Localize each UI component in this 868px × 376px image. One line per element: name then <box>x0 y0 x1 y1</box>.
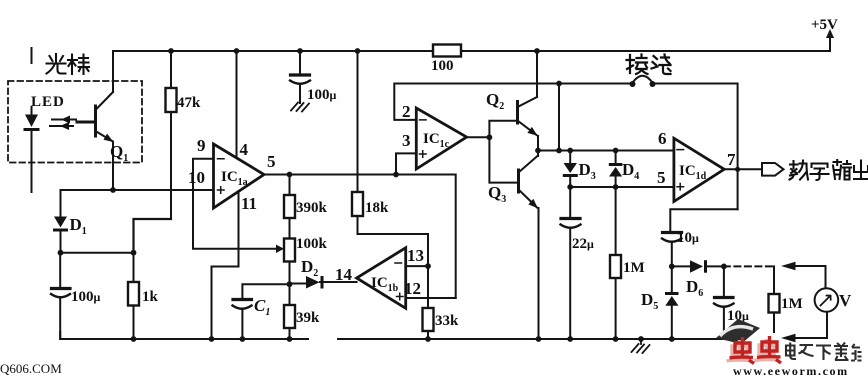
meter V circle <box>815 288 839 312</box>
dashed sensor box <box>8 81 142 163</box>
svg-text:33k: 33k <box>435 313 459 329</box>
watermark swoosh <box>716 319 760 344</box>
resistor 1M left <box>615 187 617 339</box>
wire push-pull output row <box>538 150 674 152</box>
resistor 100k pot <box>284 239 295 262</box>
wire top +5V rail <box>113 50 830 52</box>
svg-text:1k: 1k <box>142 289 159 305</box>
wire IC1a output bus <box>264 175 456 299</box>
svg-text:Q1: Q1 <box>110 142 128 164</box>
wire pin12 <box>406 297 456 299</box>
diode D1 <box>60 190 62 217</box>
resistor 390k <box>289 175 291 239</box>
svg-text:D4: D4 <box>622 160 639 182</box>
wire D2 row <box>290 282 357 284</box>
wire feedback 10u branch <box>670 209 737 231</box>
wire IC1c out to bases <box>467 121 518 183</box>
wire 47k jog to 1k node <box>134 219 172 253</box>
wire LED cathode <box>31 131 33 192</box>
wire feedback vertical <box>558 84 560 151</box>
diode D3 <box>569 151 571 164</box>
wire pin9 feedback to 100k wiper <box>193 159 276 249</box>
svg-text:Q3: Q3 <box>488 183 506 205</box>
diode D6 <box>690 260 707 273</box>
wire D3 D4 lower row to pin5 <box>570 186 674 188</box>
svg-text:Q606.COM: Q606.COM <box>0 361 62 376</box>
svg-text:3: 3 <box>402 131 411 150</box>
svg-text:5: 5 <box>657 168 666 187</box>
svg-text:2: 2 <box>402 102 411 121</box>
svg-text:Q2: Q2 <box>486 90 504 112</box>
svg-text:390k: 390k <box>296 200 328 216</box>
svg-text:1M: 1M <box>623 260 645 276</box>
capacitor 10u first <box>663 231 682 234</box>
wire pin7 output <box>724 168 762 170</box>
svg-text:7: 7 <box>727 150 736 169</box>
op-amp U-IC1b <box>357 248 406 308</box>
node D1-1k row <box>61 252 134 254</box>
wire C1 branch <box>242 284 289 298</box>
svg-text:D1: D1 <box>70 215 87 237</box>
wire meter bottom lead with arrow <box>795 312 827 338</box>
svg-text:C1: C1 <box>254 296 270 318</box>
wire dashed hookup to meter top <box>724 265 773 267</box>
label bang (rod) <box>68 55 89 75</box>
+5V arrow <box>829 36 831 51</box>
ground symbol bottom <box>632 339 650 353</box>
op-amp U-IC1d <box>674 138 724 201</box>
watermark chong shadow <box>727 339 778 361</box>
svg-text:5: 5 <box>267 152 276 171</box>
svg-text:10: 10 <box>188 168 205 187</box>
watermark chong bug 2 <box>757 336 781 363</box>
capacitor 100u left <box>59 253 61 287</box>
wire LED anode stub <box>31 48 33 115</box>
watermark dianzi xiazaizhan text <box>786 343 862 361</box>
transistor Q3 <box>517 170 520 192</box>
svg-text:22μ: 22μ <box>572 236 594 252</box>
node rail junction dots <box>168 29 834 54</box>
svg-text:6: 6 <box>658 129 667 148</box>
svg-text:LED: LED <box>31 94 65 110</box>
svg-text:www.eeworm.com: www.eeworm.com <box>733 364 849 376</box>
wire pin4 IC1a <box>236 51 238 156</box>
op-amp U-IC1c <box>416 108 466 169</box>
resistor 18k column from rail <box>357 51 359 234</box>
svg-text:13: 13 <box>407 246 424 265</box>
capacitor C1 <box>233 298 252 301</box>
node output flag <box>762 163 784 176</box>
svg-text:14: 14 <box>335 265 353 284</box>
wire pin13 <box>358 234 429 266</box>
capacitor 22u <box>569 187 571 217</box>
svg-text:100k: 100k <box>296 236 328 252</box>
diode D4 <box>615 151 617 164</box>
LED D-LED <box>24 115 40 132</box>
svg-text:4: 4 <box>240 140 249 159</box>
label zi (character) <box>811 164 829 181</box>
svg-text:10μ: 10μ <box>677 230 699 246</box>
wire input row to IC1a plus <box>61 189 214 191</box>
capacitor 100u top <box>299 51 301 74</box>
wire pin3 to bus <box>396 153 416 174</box>
svg-text:12: 12 <box>404 279 421 298</box>
label shu (number) <box>790 161 809 180</box>
light arrows <box>50 120 76 127</box>
label jie (connect) <box>627 55 648 75</box>
transistor Q2 <box>516 102 519 124</box>
resistor 47k <box>170 51 172 219</box>
svg-text:1M: 1M <box>781 296 803 312</box>
label shu2 (transport) <box>833 160 851 180</box>
watermark group bottom right <box>716 319 862 376</box>
wire bottom ground rail <box>60 332 729 339</box>
svg-text:100: 100 <box>431 58 454 74</box>
transistor Q1 <box>77 106 96 136</box>
resistor 100 ohm inline <box>433 45 461 57</box>
watermark chong bug 1 <box>730 337 755 364</box>
label xian (wire) <box>652 55 671 75</box>
resistor 33k <box>427 266 429 339</box>
resistor 1M right <box>773 266 775 332</box>
svg-text:39k: 39k <box>296 310 320 326</box>
svg-text:D6: D6 <box>686 277 703 299</box>
ground under 100u <box>291 103 309 112</box>
svg-text:+5V: +5V <box>811 17 838 33</box>
capacitor 10u second <box>723 266 725 296</box>
resistor 39k <box>289 284 291 339</box>
diode D2 <box>306 276 324 289</box>
node 100k-39k-D2-C1 <box>287 281 293 287</box>
svg-text:100μ: 100μ <box>71 289 101 305</box>
wire meter top lead with arrow <box>795 266 826 288</box>
svg-text:11: 11 <box>241 194 257 213</box>
wire hop under jiexian <box>632 76 653 84</box>
diode D5 <box>671 266 673 292</box>
wire D6 row <box>672 265 690 267</box>
label guang (light) <box>47 54 66 74</box>
wire pin11 to ground rail <box>212 192 239 339</box>
svg-text:D5: D5 <box>641 290 658 312</box>
svg-text:V: V <box>839 291 852 310</box>
label chu (out) <box>854 161 868 180</box>
svg-text:100μ: 100μ <box>307 87 337 103</box>
svg-text:47k: 47k <box>177 95 201 111</box>
resistor 1k <box>133 253 135 340</box>
op-amp U-IC1a <box>214 144 265 208</box>
CJK stroke glyphs <box>47 54 868 180</box>
svg-text:D3: D3 <box>579 160 596 182</box>
wire pin2 feedback long line with hop <box>394 84 632 120</box>
svg-text:D2: D2 <box>301 257 318 279</box>
svg-text:9: 9 <box>197 136 206 155</box>
svg-text:18k: 18k <box>365 200 389 216</box>
